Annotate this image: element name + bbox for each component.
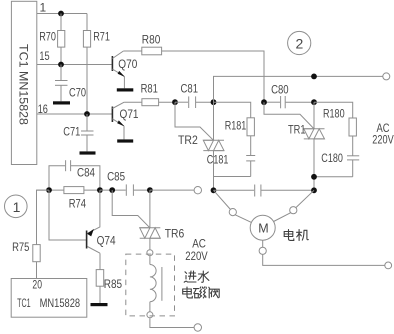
terminal valve bottom bbox=[147, 312, 153, 318]
capacitor C80 bbox=[264, 82, 314, 108]
svg-text:Q70: Q70 bbox=[118, 57, 137, 71]
node C85 / TR6 main bbox=[147, 187, 153, 193]
svg-text:R80: R80 bbox=[142, 33, 161, 47]
ground (C70) bbox=[53, 101, 70, 104]
capacitor C180 bbox=[321, 151, 359, 177]
transistor Q71 bbox=[112, 102, 141, 126]
triac TR2 bbox=[175, 102, 224, 190]
svg-text:220V: 220V bbox=[185, 249, 207, 263]
resistor R75 bbox=[12, 190, 49, 278]
svg-text:TR6: TR6 bbox=[165, 226, 185, 240]
svg-text:R70: R70 bbox=[39, 29, 56, 43]
node 1 (circled) bbox=[5, 195, 28, 218]
svg-text:2: 2 bbox=[296, 36, 304, 52]
svg-text:1: 1 bbox=[40, 1, 47, 15]
node motor line left bbox=[211, 187, 217, 193]
svg-text:R180: R180 bbox=[323, 106, 345, 120]
resistor R181 bbox=[214, 102, 255, 155]
进 bbox=[184, 271, 196, 282]
wire C85 to terminal bbox=[150, 189, 194, 191]
IC TC1 MN15828 (bottom box) bbox=[11, 277, 87, 317]
wire motor right diagonal bbox=[296, 190, 314, 207]
label AC 220V (right) bbox=[372, 121, 393, 147]
resistor R180 bbox=[314, 102, 356, 155]
triac TR1 bbox=[264, 102, 325, 190]
svg-text:Q71: Q71 bbox=[120, 107, 139, 121]
wire pin 16 bbox=[37, 113, 112, 115]
node TR6 gate branch bbox=[109, 187, 115, 193]
svg-text:C180: C180 bbox=[321, 151, 343, 165]
capacitor C70 bbox=[55, 65, 86, 102]
terminal (line 1 plug) bbox=[194, 187, 201, 194]
ground (Q71 emitter) bbox=[117, 126, 133, 143]
node C81/TR2 main bbox=[211, 99, 217, 105]
node C80 right / R180 branch bbox=[311, 99, 317, 105]
svg-text:R74: R74 bbox=[69, 196, 87, 210]
电 bbox=[284, 230, 294, 241]
svg-text:R75: R75 bbox=[12, 240, 30, 254]
node TR1/C180 return bbox=[311, 174, 317, 180]
wire valve to terminal bbox=[150, 318, 194, 327]
resistor R70 bbox=[39, 14, 65, 65]
terminal motor line right bbox=[385, 262, 392, 269]
svg-text:C71: C71 bbox=[63, 124, 80, 138]
wire C180 return bbox=[314, 176, 353, 178]
inductor (solenoid coil) bbox=[150, 256, 162, 312]
wire R80 to C80 / TR1 gate bbox=[162, 51, 264, 102]
wire to C85 bbox=[100, 189, 126, 191]
node 2 (circled) bbox=[288, 31, 311, 54]
terminal TR6 to valve bbox=[147, 250, 153, 256]
motor M bbox=[250, 215, 275, 240]
svg-text:MN15828: MN15828 bbox=[40, 296, 81, 310]
svg-text:220V: 220V bbox=[372, 132, 393, 146]
capacitor C81 bbox=[175, 82, 214, 108]
resistor R81 bbox=[141, 82, 175, 106]
resistor R74 bbox=[64, 187, 100, 211]
svg-text:TR1: TR1 bbox=[288, 122, 306, 136]
机 bbox=[297, 230, 309, 241]
node AC line / TR1 branch bbox=[311, 74, 317, 80]
svg-text:C181: C181 bbox=[207, 153, 229, 167]
node pin16/R71/C71 junction bbox=[84, 111, 90, 117]
capacitor C71 bbox=[63, 114, 93, 151]
resistor R80 bbox=[142, 33, 162, 55]
resistor R85 bbox=[96, 253, 122, 303]
wire TR2/C181 return bbox=[214, 176, 251, 178]
水 bbox=[198, 271, 209, 282]
solenoid valve dashed enclosure bbox=[126, 254, 175, 316]
svg-text:TC1: TC1 bbox=[17, 296, 31, 310]
ground (C71) bbox=[80, 151, 96, 154]
svg-text:R71: R71 bbox=[93, 29, 110, 43]
wire pin 15 bbox=[37, 64, 112, 66]
阀 bbox=[209, 287, 219, 298]
node C84 right / Q74 emitter bbox=[97, 187, 103, 193]
svg-text:C70: C70 bbox=[69, 86, 86, 100]
svg-text:C81: C81 bbox=[181, 82, 199, 96]
label 进水 电磁阀 (inlet solenoid valve) bbox=[183, 271, 220, 298]
node R81/C81/TR2 gate bbox=[172, 99, 178, 105]
terminal motor left bbox=[229, 209, 236, 216]
wire motor to right terminal bbox=[263, 254, 385, 265]
svg-text:TC1 MN15828: TC1 MN15828 bbox=[17, 44, 31, 125]
terminal motor bottom bbox=[259, 247, 266, 254]
capacitor motor phase bbox=[214, 185, 315, 197]
wire AC top line bbox=[214, 76, 383, 102]
svg-text:C85: C85 bbox=[107, 169, 125, 183]
IC TC1 MN15828 (top box) bbox=[11, 1, 36, 164]
wire motor left diagonal bbox=[214, 190, 231, 209]
ground (Q70 emitter) bbox=[117, 77, 134, 92]
svg-text:R181: R181 bbox=[225, 118, 247, 132]
svg-text:M: M bbox=[258, 222, 268, 236]
wire motor bottom bbox=[262, 240, 264, 247]
svg-text:Q74: Q74 bbox=[97, 233, 116, 247]
capacitor C181 bbox=[207, 153, 255, 177]
node C84 left bbox=[46, 187, 52, 193]
node C80 left / TR1 gate bbox=[261, 99, 267, 105]
transistor Q70 bbox=[112, 51, 141, 77]
resistor R71 bbox=[83, 14, 110, 115]
svg-text:TR2: TR2 bbox=[178, 133, 198, 147]
capacitor C85 bbox=[107, 169, 150, 196]
ground (R85) bbox=[91, 303, 108, 306]
svg-text:15: 15 bbox=[39, 49, 49, 63]
wire main line y190 bbox=[37, 189, 64, 191]
label AC 220V (TR6) bbox=[185, 237, 207, 264]
svg-text:1: 1 bbox=[13, 199, 21, 215]
transistor Q74 bbox=[49, 190, 116, 253]
triac TR6 bbox=[112, 190, 184, 249]
svg-text:C84: C84 bbox=[77, 165, 95, 179]
wire pin 1 bbox=[37, 13, 87, 15]
node pin1/R70 junction bbox=[58, 11, 64, 17]
terminal AC right bbox=[383, 73, 390, 80]
node pin15/C70 junction bbox=[58, 62, 64, 68]
svg-text:C80: C80 bbox=[271, 82, 289, 96]
label 电机 (motor) bbox=[284, 230, 308, 241]
capacitor C84 bbox=[49, 160, 100, 190]
磁 bbox=[194, 287, 207, 298]
terminal motor right bbox=[290, 207, 297, 214]
svg-text:20: 20 bbox=[32, 277, 42, 291]
电 bbox=[183, 287, 193, 298]
terminal (valve line plug) bbox=[194, 324, 201, 331]
node motor line right bbox=[311, 187, 317, 193]
svg-text:R85: R85 bbox=[104, 277, 123, 291]
svg-text:R81: R81 bbox=[141, 82, 159, 96]
